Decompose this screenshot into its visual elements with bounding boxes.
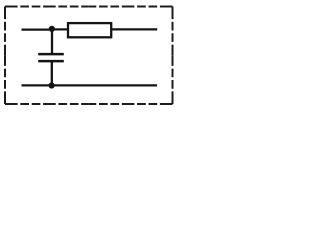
junction: node A bbox=[49, 26, 55, 32]
resistor R1 (box symbol) bbox=[68, 23, 111, 37]
capacitor C1 top plate bbox=[38, 53, 64, 56]
wire: C1 bottom plate down to node B bbox=[51, 61, 53, 85]
wire: top-left input to node A bbox=[22, 29, 50, 31]
capacitor C1 bottom plate bbox=[38, 60, 64, 63]
wire: bottom rail bbox=[22, 84, 158, 86]
wire: node A down to C1 top plate bbox=[51, 29, 53, 54]
enclosure (dashed boundary) bbox=[5, 7, 173, 105]
wire: R1 right pin to top-right output bbox=[112, 28, 158, 30]
wire: node A to R1 left pin bbox=[52, 28, 68, 30]
junction: node B bbox=[49, 82, 55, 88]
